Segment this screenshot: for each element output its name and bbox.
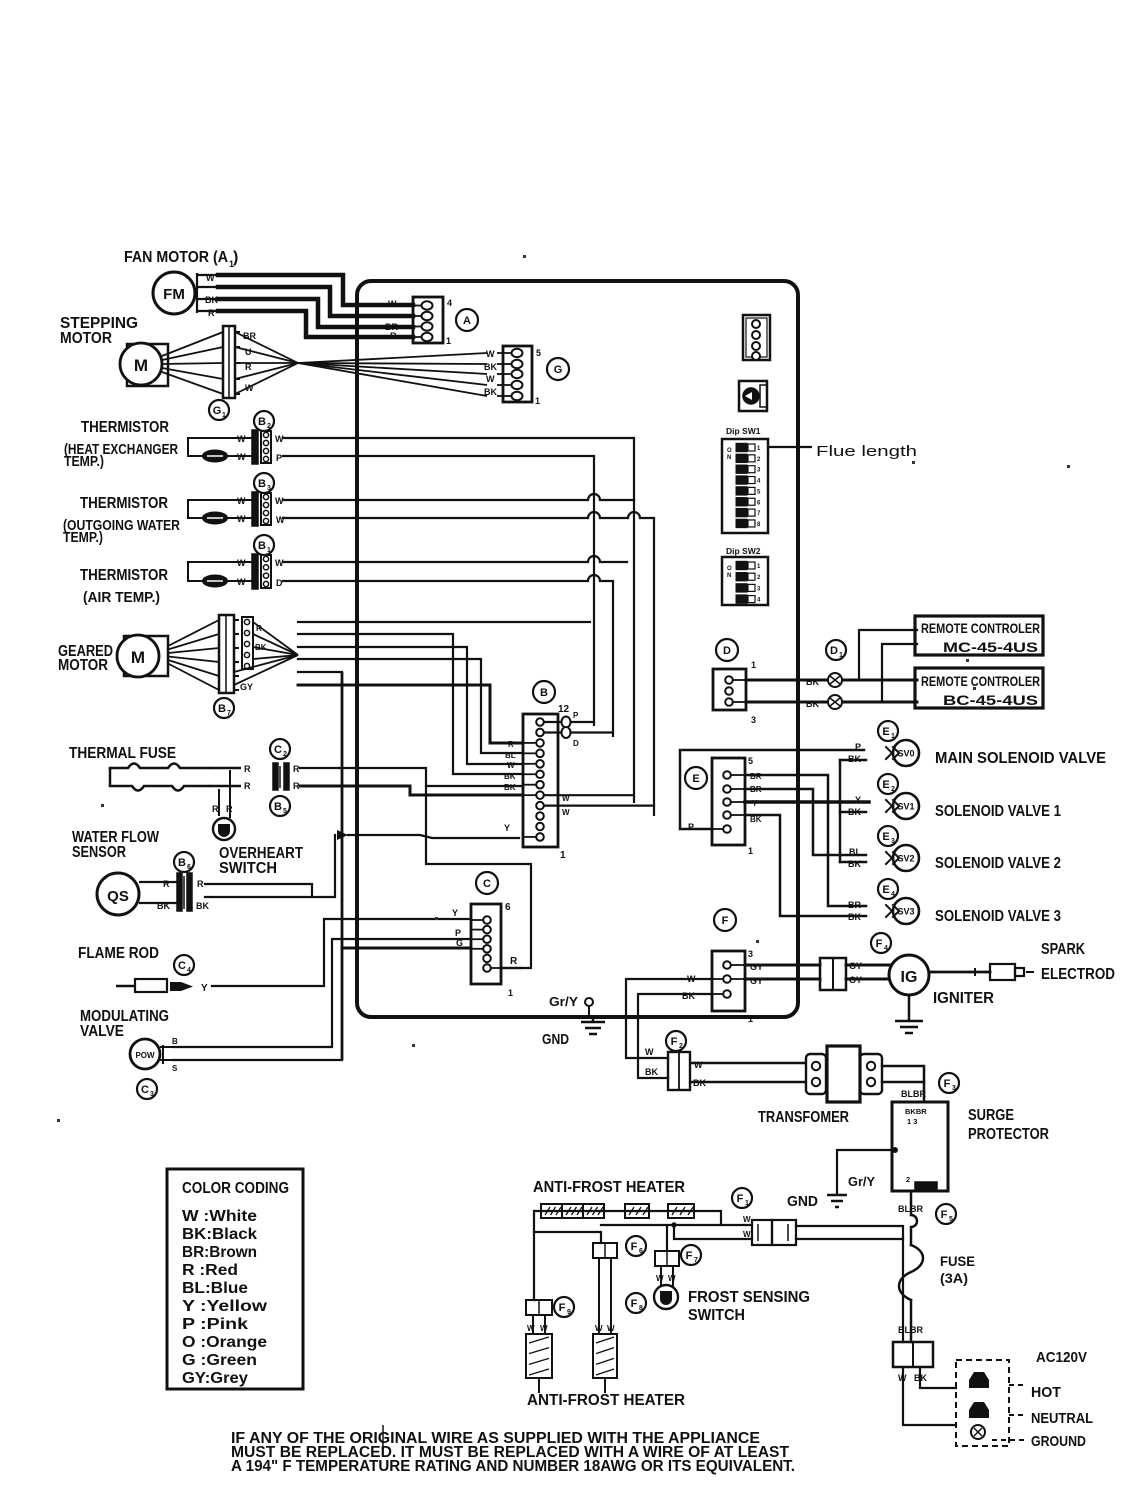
svg-text:1: 1 bbox=[757, 564, 761, 570]
svg-text:THERMAL FUSE: THERMAL FUSE bbox=[69, 745, 176, 762]
svg-text:AC120V: AC120V bbox=[1036, 1349, 1087, 1366]
svg-text:W: W bbox=[237, 496, 246, 506]
svg-text:(AIR TEMP.): (AIR TEMP.) bbox=[83, 590, 160, 606]
svg-text:BR: BR bbox=[750, 772, 762, 781]
svg-text:BL: BL bbox=[849, 847, 861, 857]
svg-text:7: 7 bbox=[757, 511, 761, 517]
svg-text:D: D bbox=[276, 578, 283, 588]
svg-text:P: P bbox=[573, 711, 579, 720]
svg-text:5: 5 bbox=[748, 756, 753, 766]
svg-text:8: 8 bbox=[757, 522, 761, 528]
svg-text:BL:Blue: BL:Blue bbox=[182, 1280, 248, 1297]
svg-text:F: F bbox=[722, 915, 729, 927]
svg-text:12: 12 bbox=[558, 704, 570, 715]
svg-text:BK: BK bbox=[848, 912, 861, 922]
svg-text:SV2: SV2 bbox=[897, 854, 914, 864]
svg-text:W: W bbox=[237, 577, 246, 587]
svg-text:R: R bbox=[163, 879, 170, 889]
svg-text:W: W bbox=[656, 1274, 664, 1283]
svg-text:B: B bbox=[540, 687, 548, 699]
svg-text:E: E bbox=[692, 773, 699, 785]
svg-text:R: R bbox=[226, 804, 233, 814]
svg-text:F: F bbox=[941, 1209, 948, 1221]
svg-text:3: 3 bbox=[891, 838, 895, 845]
svg-text:BK: BK bbox=[806, 699, 819, 709]
svg-text:6: 6 bbox=[505, 902, 511, 913]
svg-text:Flue length: Flue length bbox=[816, 443, 917, 460]
svg-text:MOTOR: MOTOR bbox=[60, 330, 112, 347]
svg-text:O: O bbox=[727, 566, 732, 572]
svg-text:BK: BK bbox=[750, 815, 762, 824]
svg-text:GND: GND bbox=[787, 1193, 818, 1210]
svg-text:BK: BK bbox=[504, 783, 516, 792]
svg-text:BLBR: BLBR bbox=[898, 1204, 923, 1214]
svg-text:BK: BK bbox=[645, 1067, 658, 1077]
svg-text:QS: QS bbox=[107, 888, 129, 905]
svg-text:1: 1 bbox=[748, 1014, 753, 1024]
svg-text:W: W bbox=[276, 515, 285, 525]
svg-text:7: 7 bbox=[227, 710, 231, 717]
svg-text:B: B bbox=[274, 801, 282, 813]
svg-text:REMOTE CONTROLER: REMOTE CONTROLER bbox=[921, 621, 1040, 636]
svg-text:P: P bbox=[855, 742, 861, 752]
svg-text:SOLENOID VALVE 3: SOLENOID VALVE 3 bbox=[935, 908, 1061, 925]
svg-text:Dip SW2: Dip SW2 bbox=[726, 546, 761, 556]
svg-text:B: B bbox=[172, 1037, 178, 1046]
svg-text:6: 6 bbox=[639, 1248, 643, 1255]
svg-text:C: C bbox=[274, 744, 282, 756]
svg-text:1: 1 bbox=[745, 1200, 749, 1207]
svg-text:R: R bbox=[208, 308, 215, 318]
svg-text:BK: BK bbox=[484, 387, 497, 397]
svg-text:B: B bbox=[178, 857, 186, 869]
svg-text:5: 5 bbox=[757, 489, 761, 495]
svg-text:BK: BK bbox=[196, 901, 209, 911]
svg-text:U: U bbox=[245, 347, 252, 357]
svg-text:BR: BR bbox=[848, 900, 861, 910]
svg-text:THERMISTOR: THERMISTOR bbox=[80, 567, 168, 584]
svg-text:1: 1 bbox=[839, 652, 843, 659]
svg-text:F: F bbox=[737, 1193, 744, 1205]
svg-text:S: S bbox=[172, 1064, 178, 1073]
svg-text:W: W bbox=[743, 1230, 751, 1239]
svg-text:Y: Y bbox=[201, 983, 208, 994]
svg-text:2: 2 bbox=[283, 751, 287, 758]
svg-text:4: 4 bbox=[891, 891, 895, 898]
svg-text:GY: GY bbox=[240, 682, 253, 692]
svg-text:W: W bbox=[237, 434, 246, 444]
svg-text:N: N bbox=[727, 455, 731, 461]
svg-text:1 3: 1 3 bbox=[907, 1117, 917, 1126]
svg-text:R: R bbox=[244, 764, 251, 774]
svg-text:4: 4 bbox=[757, 598, 761, 604]
svg-text:BK: BK bbox=[157, 901, 170, 911]
svg-text:W: W bbox=[237, 558, 246, 568]
svg-text:SPARK: SPARK bbox=[1041, 941, 1085, 958]
svg-text:2: 2 bbox=[906, 1175, 910, 1184]
svg-text:BK: BK bbox=[806, 677, 819, 687]
svg-text:F: F bbox=[631, 1241, 638, 1253]
svg-text:3: 3 bbox=[751, 715, 756, 725]
svg-text:MOTOR: MOTOR bbox=[58, 657, 108, 674]
svg-text:ANTI-FROST HEATER: ANTI-FROST HEATER bbox=[527, 1392, 685, 1409]
svg-text:3: 3 bbox=[952, 1085, 956, 1092]
svg-text:W: W bbox=[694, 1060, 703, 1070]
svg-text:4: 4 bbox=[884, 945, 888, 952]
svg-text:R: R bbox=[244, 781, 251, 791]
svg-text:4: 4 bbox=[757, 479, 761, 485]
svg-text:D: D bbox=[573, 739, 579, 748]
svg-text:COLOR CODING: COLOR CODING bbox=[182, 1180, 289, 1197]
svg-text:1: 1 bbox=[891, 733, 895, 740]
svg-text:SURGE: SURGE bbox=[968, 1107, 1014, 1124]
svg-text:BK: BK bbox=[484, 362, 497, 372]
svg-text:ANTI-FROST HEATER: ANTI-FROST HEATER bbox=[533, 1179, 685, 1196]
svg-text:6: 6 bbox=[757, 500, 761, 506]
svg-text:BLBR: BLBR bbox=[898, 1325, 923, 1335]
svg-text:Y: Y bbox=[452, 908, 458, 918]
svg-text:W: W bbox=[743, 1215, 751, 1224]
svg-text:1: 1 bbox=[267, 547, 271, 554]
svg-text:BK:Black: BK:Black bbox=[182, 1226, 257, 1243]
svg-text:Gr/Y: Gr/Y bbox=[549, 994, 578, 1009]
svg-text:P: P bbox=[276, 453, 282, 463]
svg-text:3: 3 bbox=[267, 485, 271, 492]
svg-text:F: F bbox=[559, 1302, 566, 1314]
svg-text:A: A bbox=[463, 315, 471, 327]
svg-text:NEUTRAL: NEUTRAL bbox=[1031, 1410, 1093, 1427]
svg-text:BK: BK bbox=[682, 991, 695, 1001]
svg-text:SV1: SV1 bbox=[897, 802, 914, 812]
svg-text:TRANSFOMER: TRANSFOMER bbox=[758, 1109, 849, 1126]
svg-text:1: 1 bbox=[535, 396, 540, 406]
svg-text:2: 2 bbox=[757, 457, 761, 463]
svg-text:HOT: HOT bbox=[1031, 1384, 1061, 1401]
svg-text:M: M bbox=[131, 648, 145, 667]
svg-text:F: F bbox=[671, 1036, 678, 1048]
svg-text:W: W bbox=[237, 514, 246, 524]
svg-text:2: 2 bbox=[891, 786, 895, 793]
svg-text:C: C bbox=[141, 1084, 149, 1096]
svg-text:2: 2 bbox=[679, 1043, 683, 1050]
svg-text:BK: BK bbox=[504, 772, 516, 781]
svg-text:W: W bbox=[507, 761, 515, 770]
svg-text:Dip SW1: Dip SW1 bbox=[726, 426, 761, 436]
svg-text:P: P bbox=[455, 928, 461, 938]
svg-text:W: W bbox=[237, 452, 246, 462]
svg-text:TEMP.): TEMP.) bbox=[63, 530, 103, 546]
svg-text:3: 3 bbox=[748, 949, 753, 959]
svg-text:ELECTROD: ELECTROD bbox=[1041, 966, 1115, 983]
svg-text:SV3: SV3 bbox=[897, 907, 914, 917]
svg-text:1: 1 bbox=[751, 660, 756, 670]
svg-text:2: 2 bbox=[267, 423, 271, 430]
svg-text:BC-45-4US: BC-45-4US bbox=[943, 693, 1038, 708]
svg-text:SOLENOID VALVE 2: SOLENOID VALVE 2 bbox=[935, 855, 1061, 872]
svg-text:PROTECTOR: PROTECTOR bbox=[968, 1126, 1049, 1143]
svg-text:5: 5 bbox=[949, 1216, 953, 1223]
svg-text:R: R bbox=[508, 740, 514, 749]
svg-text:FM: FM bbox=[163, 286, 185, 303]
svg-text:M: M bbox=[134, 356, 148, 375]
svg-text:SV0: SV0 bbox=[897, 749, 914, 759]
svg-text:E: E bbox=[882, 884, 889, 896]
svg-text:4: 4 bbox=[187, 967, 191, 974]
svg-text:SWITCH: SWITCH bbox=[688, 1307, 745, 1324]
svg-text:BK: BK bbox=[848, 859, 861, 869]
svg-text:MC-45-4US: MC-45-4US bbox=[943, 640, 1038, 655]
svg-text:B: B bbox=[218, 703, 226, 715]
svg-text:7: 7 bbox=[694, 1257, 698, 1264]
svg-text:W: W bbox=[486, 349, 495, 359]
svg-text:W: W bbox=[540, 1324, 548, 1333]
svg-text:FLAME ROD: FLAME ROD bbox=[78, 945, 159, 962]
svg-text:D: D bbox=[723, 645, 731, 657]
svg-text:1: 1 bbox=[748, 846, 753, 856]
svg-text:BR:Brown: BR:Brown bbox=[182, 1244, 257, 1261]
svg-text:1: 1 bbox=[446, 336, 451, 346]
svg-text:G: G bbox=[554, 364, 563, 376]
svg-text:R: R bbox=[510, 956, 518, 967]
svg-text:REMOTE CONTROLER: REMOTE CONTROLER bbox=[921, 674, 1040, 689]
svg-text:W: W bbox=[645, 1047, 654, 1057]
svg-text:Y: Y bbox=[855, 795, 861, 805]
svg-text:E: E bbox=[882, 831, 889, 843]
svg-text:4: 4 bbox=[447, 298, 452, 308]
svg-text:Gr/Y: Gr/Y bbox=[848, 1174, 875, 1189]
svg-text:W: W bbox=[206, 273, 215, 283]
svg-text:POW: POW bbox=[135, 1051, 155, 1060]
svg-text:THERMISTOR: THERMISTOR bbox=[80, 495, 168, 512]
svg-text:GY:Grey: GY:Grey bbox=[182, 1370, 248, 1387]
svg-text:3: 3 bbox=[757, 468, 761, 474]
svg-text:F: F bbox=[631, 1298, 638, 1310]
svg-text:2: 2 bbox=[757, 575, 761, 581]
svg-text:A 194" F TEMPERATURE RATING AN: A 194" F TEMPERATURE RATING AND NUMBER 1… bbox=[231, 1458, 795, 1475]
svg-text:W: W bbox=[527, 1324, 535, 1333]
svg-text:(3A): (3A) bbox=[940, 1270, 968, 1286]
svg-text:W: W bbox=[388, 299, 397, 309]
svg-text:8: 8 bbox=[639, 1305, 643, 1312]
svg-text:BLBR: BLBR bbox=[901, 1089, 926, 1099]
svg-text:GROUND: GROUND bbox=[1031, 1433, 1086, 1450]
svg-text:5: 5 bbox=[536, 348, 541, 358]
svg-text:1: 1 bbox=[508, 988, 513, 998]
svg-text:F: F bbox=[686, 1250, 693, 1262]
svg-text:D: D bbox=[830, 645, 838, 657]
svg-text:C: C bbox=[483, 878, 491, 890]
svg-text:5: 5 bbox=[283, 808, 287, 815]
svg-text:IGNITER: IGNITER bbox=[933, 990, 994, 1007]
svg-text:O :Orange: O :Orange bbox=[182, 1334, 267, 1351]
svg-text:TEMP.): TEMP.) bbox=[64, 454, 104, 470]
svg-text:G: G bbox=[213, 405, 222, 417]
svg-text:R: R bbox=[212, 804, 219, 814]
svg-text:1: 1 bbox=[222, 412, 226, 419]
svg-text:G :Green: G :Green bbox=[182, 1352, 257, 1369]
svg-text:R :Red: R :Red bbox=[182, 1262, 238, 1279]
svg-text:F: F bbox=[944, 1078, 951, 1090]
svg-text:SOLENOID VALVE 1: SOLENOID VALVE 1 bbox=[935, 803, 1061, 820]
svg-text:E: E bbox=[882, 726, 889, 738]
svg-text:SENSOR: SENSOR bbox=[72, 844, 126, 861]
svg-text:B: B bbox=[258, 416, 266, 428]
svg-text:3: 3 bbox=[757, 586, 761, 592]
svg-text:FROST SENSING: FROST SENSING bbox=[688, 1289, 810, 1306]
svg-text:MAIN SOLENOID VALVE: MAIN SOLENOID VALVE bbox=[935, 750, 1106, 767]
svg-text:Y :Yellow: Y :Yellow bbox=[182, 1298, 268, 1315]
svg-text:GND: GND bbox=[542, 1031, 569, 1048]
svg-text:9: 9 bbox=[567, 1309, 571, 1316]
svg-text:C: C bbox=[178, 960, 186, 972]
svg-text:6: 6 bbox=[187, 864, 191, 871]
svg-text:1: 1 bbox=[560, 850, 566, 861]
svg-text:FAN MOTOR (A: FAN MOTOR (A bbox=[124, 249, 228, 266]
svg-text:BKBR: BKBR bbox=[905, 1107, 927, 1116]
svg-text:W: W bbox=[562, 808, 570, 817]
svg-text:N: N bbox=[727, 573, 731, 579]
svg-text:BK: BK bbox=[848, 754, 861, 764]
svg-text:IG: IG bbox=[901, 969, 918, 986]
svg-text:E: E bbox=[882, 779, 889, 791]
svg-text:SWITCH: SWITCH bbox=[219, 860, 277, 877]
svg-text:): ) bbox=[233, 249, 238, 266]
svg-text:B: B bbox=[258, 478, 266, 490]
svg-text:O: O bbox=[727, 448, 732, 454]
svg-text:P :Pink: P :Pink bbox=[182, 1316, 248, 1333]
svg-text:FUSE: FUSE bbox=[940, 1253, 975, 1269]
svg-text:B: B bbox=[258, 540, 266, 552]
svg-text:W: W bbox=[486, 374, 495, 384]
svg-text:G: G bbox=[456, 938, 463, 948]
svg-text:3: 3 bbox=[150, 1091, 154, 1098]
svg-text:P: P bbox=[688, 822, 694, 832]
svg-text:F: F bbox=[876, 938, 883, 950]
svg-text:R: R bbox=[197, 879, 204, 889]
svg-text:BK: BK bbox=[848, 807, 861, 817]
svg-text:THERMISTOR: THERMISTOR bbox=[81, 419, 169, 436]
svg-text:BL: BL bbox=[505, 751, 516, 760]
svg-text:W: W bbox=[595, 1324, 603, 1333]
svg-text:1: 1 bbox=[757, 446, 761, 452]
svg-text:R: R bbox=[390, 331, 397, 341]
svg-text:W: W bbox=[562, 794, 570, 803]
svg-text:W :White: W :White bbox=[182, 1208, 257, 1225]
svg-text:Y: Y bbox=[504, 823, 510, 833]
svg-text:VALVE: VALVE bbox=[80, 1023, 124, 1040]
svg-text:W: W bbox=[607, 1324, 615, 1333]
svg-text:W: W bbox=[668, 1274, 676, 1283]
